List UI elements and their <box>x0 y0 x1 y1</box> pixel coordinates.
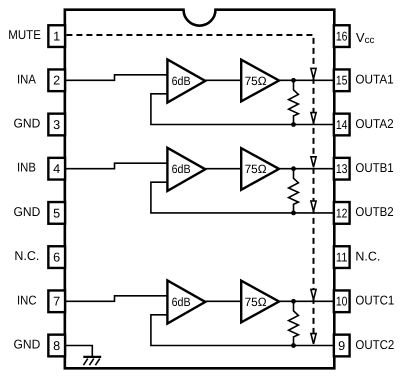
op-amp C2: 75 ohm output buffer <box>241 281 279 323</box>
svg-text:GND: GND <box>14 337 41 352</box>
svg-text:5: 5 <box>53 206 60 220</box>
pin 12 box <box>334 202 350 224</box>
svg-text:N.C.: N.C. <box>355 248 380 263</box>
pin 10 box <box>334 290 350 312</box>
pin 9 box <box>334 335 350 357</box>
resistor RC between OUTC1 and OUTC2 <box>289 302 299 345</box>
wire: OUTB1 line from 75 ohm buffer to pin <box>278 168 334 170</box>
svg-text:13: 13 <box>336 162 348 176</box>
svg-text:INC: INC <box>17 292 37 307</box>
pin 1 box <box>48 25 65 47</box>
pin 6 box <box>48 246 65 268</box>
wire: MUTE dashed control line from pin 1 across top and down right side <box>66 35 313 344</box>
junction: OUTA1 / resistor top <box>291 78 296 83</box>
ground symbol <box>83 357 101 365</box>
mute arrowhead on dashed line at y=124.5 <box>311 113 316 123</box>
pin 7 box <box>48 290 65 312</box>
mute arrowhead on dashed line at y=212.9 <box>311 201 316 211</box>
mute arrowhead on dashed line at y=301.3 <box>311 289 316 299</box>
wire: pin 8 GND to ground symbol <box>66 346 92 357</box>
svg-text:OUTA1: OUTA1 <box>355 72 393 87</box>
svg-text:OUTC1: OUTC1 <box>355 293 394 308</box>
wire: 6dB amp output to 75 ohm buffer <box>204 168 242 170</box>
svg-text:14: 14 <box>336 118 348 132</box>
svg-text:INA: INA <box>17 71 36 86</box>
mute arrowhead on dashed line at y=80.3 <box>311 68 316 78</box>
pin 16 box <box>334 25 350 47</box>
wire: INA input from pin to 6dB amp (with jog) <box>66 75 167 81</box>
pin 3 box <box>48 114 65 136</box>
pin 14 box <box>334 114 350 136</box>
svg-text:16: 16 <box>336 30 348 44</box>
junction: OUTB2 / resistor bottom <box>291 211 296 216</box>
svg-text:7: 7 <box>53 295 60 309</box>
wire: 6dB amp output to 75 ohm buffer <box>204 79 242 81</box>
svg-text:Vcc: Vcc <box>356 30 375 46</box>
svg-text:6: 6 <box>53 251 60 265</box>
svg-text:OUTB1: OUTB1 <box>355 160 393 175</box>
IC body U1 (16-pin DIP outline with index notch) <box>65 10 334 369</box>
wire: feedback from 6dB amp inverting input to OUTA2 line <box>151 94 334 125</box>
wire: feedback from 6dB amp inverting input to OUTB2 line <box>151 182 334 213</box>
svg-text:8: 8 <box>53 339 60 353</box>
wire: 6dB amp output to 75 ohm buffer <box>204 300 242 302</box>
wire: INB input from pin to 6dB amp (with jog) <box>66 163 167 169</box>
op-amp B2: 75 ohm output buffer <box>241 148 279 190</box>
svg-text:GND: GND <box>14 204 41 219</box>
op-amp C1: 6dB gain stage <box>167 280 205 323</box>
resistor RB between OUTB1 and OUTB2 <box>289 170 299 213</box>
svg-text:OUTC2: OUTC2 <box>355 337 394 352</box>
svg-text:6dB: 6dB <box>172 162 191 176</box>
svg-text:11: 11 <box>336 251 348 265</box>
svg-text:9: 9 <box>338 339 345 353</box>
svg-text:1: 1 <box>53 30 60 44</box>
wire: OUTA1 line from 75 ohm buffer to pin <box>278 79 334 81</box>
svg-text:MUTE: MUTE <box>8 27 41 42</box>
svg-text:GND: GND <box>14 116 41 131</box>
junction: OUTB1 / resistor top <box>291 166 296 171</box>
wire: OUTC1 line from 75 ohm buffer to pin <box>278 300 334 302</box>
svg-text:2: 2 <box>53 74 60 88</box>
svg-text:75Ω: 75Ω <box>245 74 267 88</box>
pin 4 box <box>48 158 65 180</box>
pin 8 box <box>48 335 65 357</box>
svg-text:OUTB2: OUTB2 <box>355 204 393 219</box>
op-amp B1: 6dB gain stage <box>167 148 205 191</box>
pin 2 box <box>48 69 65 91</box>
pin 5 box <box>48 202 65 224</box>
svg-text:10: 10 <box>336 295 348 309</box>
svg-text:OUTA2: OUTA2 <box>355 116 393 131</box>
mute arrowhead on dashed line at y=168.7 <box>311 157 316 167</box>
svg-text:INB: INB <box>17 160 36 175</box>
svg-text:6dB: 6dB <box>172 295 191 309</box>
mute arrowhead on dashed line at y=345.5 <box>311 334 316 344</box>
wire: feedback from 6dB amp inverting input to OUTC2 line <box>151 315 334 346</box>
junction: OUTA2 / resistor bottom <box>291 122 296 127</box>
svg-text:6dB: 6dB <box>172 74 191 88</box>
svg-text:15: 15 <box>336 74 348 88</box>
svg-text:N.C.: N.C. <box>14 248 39 263</box>
svg-text:4: 4 <box>53 162 60 176</box>
pin 15 box <box>334 69 350 91</box>
svg-text:75Ω: 75Ω <box>245 295 267 309</box>
pin 13 box <box>334 158 350 180</box>
wire: INC input from pin to 6dB amp (with jog) <box>66 296 167 302</box>
pin 11 box <box>334 246 350 268</box>
svg-text:3: 3 <box>53 118 60 132</box>
svg-text:75Ω: 75Ω <box>245 162 267 176</box>
junction: OUTC2 / resistor bottom <box>291 343 296 348</box>
junction: OUTC1 / resistor top <box>291 299 296 304</box>
op-amp A2: 75 ohm output buffer <box>241 60 279 102</box>
op-amp A1: 6dB gain stage <box>167 59 205 102</box>
svg-text:12: 12 <box>336 206 348 220</box>
resistor RA between OUTA1 and OUTA2 <box>289 81 299 124</box>
